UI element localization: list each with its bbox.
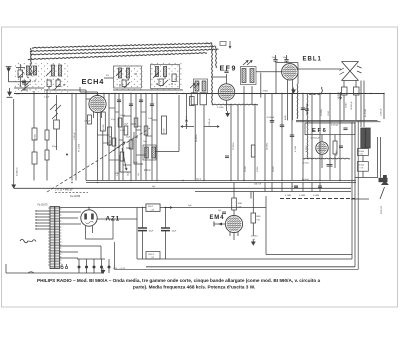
pilot lamp bus	[77, 258, 105, 260]
svg-text:1.000 µF: 1.000 µF	[381, 108, 383, 116]
caps under EBL1 shield	[305, 108, 309, 110]
tube EF9	[218, 84, 234, 100]
chassis line mid	[146, 266, 355, 268]
tube EBL1	[282, 64, 298, 80]
EBL1 box left	[275, 63, 277, 94]
mixer resistor 3	[134, 118, 138, 127]
EF9 grid wire	[226, 74, 228, 84]
mains left vert	[5, 264, 7, 273]
mains squiggle	[20, 239, 36, 243]
tuning arrow down	[122, 148, 127, 170]
osc cluster A dots	[114, 64, 143, 90]
shield row 3	[30, 49, 219, 55]
grid cap row b	[318, 185, 322, 187]
switch levers cluster1	[18, 72, 24, 78]
left wires col A	[33, 91, 35, 128]
osc cluster A frame	[114, 66, 142, 88]
elco b wires	[165, 208, 167, 229]
transformer primary leads	[36, 210, 50, 212]
EF9 cathode wire	[226, 100, 228, 111]
osc B dots	[156, 83, 157, 84]
padder caps row	[117, 99, 121, 101]
tube EM4	[225, 215, 242, 232]
EF9 top cap	[224, 70, 228, 72]
mixer link wires	[109, 107, 115, 109]
cap row right b	[290, 134, 295, 136]
det wire 2	[203, 105, 205, 181]
svg-text:468 kc: 468 kc	[144, 170, 152, 172]
AZ1 anode wires	[88, 208, 90, 210]
pick-up diagonal	[380, 187, 385, 199]
osc trimmer a	[122, 80, 126, 87]
EM4 target wires	[233, 210, 235, 215]
chassis line outer	[115, 121, 359, 269]
svg-text:51243: 51243	[328, 111, 330, 116]
speaker arrows right	[357, 66, 362, 73]
switch levers cluster2	[46, 70, 52, 76]
resistor 27k	[190, 97, 195, 106]
det wire 1	[194, 105, 196, 181]
mixer resistor 4	[144, 126, 148, 135]
EM4 wire from bus	[233, 183, 235, 199]
wire cluster2 bottom	[44, 89, 86, 91]
bus line C	[195, 191, 351, 193]
svg-text:0.1 MΩ: 0.1 MΩ	[294, 145, 297, 152]
ift2 wire down c	[254, 105, 256, 181]
right resistor 70000	[358, 162, 369, 172]
svg-text:50.000Ω: 50.000Ω	[265, 142, 268, 150]
EF6 top double line a	[296, 119, 378, 121]
svg-text:3 MΩ: 3 MΩ	[263, 90, 269, 93]
svg-text:1.000 µF: 1.000 µF	[209, 118, 211, 126]
EF6 shield wavy bottom	[303, 157, 350, 160]
L-bend wire a	[134, 132, 143, 164]
bus line B	[14, 187, 351, 189]
det resistor 1	[191, 93, 197, 105]
svg-text:PHILIPS RADIO – Mod. BI 590/A: PHILIPS RADIO – Mod. BI 590/A – Onda med…	[37, 278, 321, 283]
EM4 resistor 2M	[251, 213, 256, 223]
speaker wire down d	[363, 81, 365, 128]
svg-text:0.1MΩ: 0.1MΩ	[335, 150, 338, 156]
left resistor B	[32, 152, 37, 164]
svg-text:16.000 µF: 16.000 µF	[351, 101, 353, 110]
mains input terminals	[61, 266, 63, 268]
cluster1 junction dots	[20, 85, 21, 86]
wire input mid	[14, 87, 44, 89]
IF transformer 468kc	[145, 147, 149, 158]
svg-text:0.5MΩ: 0.5MΩ	[313, 194, 320, 197]
screen res wire	[102, 131, 104, 181]
svg-text:50.000 Ω: 50.000 Ω	[195, 134, 198, 142]
resistor 470 left	[54, 120, 60, 129]
bus line A	[86, 180, 356, 182]
EF6 wires	[321, 135, 323, 142]
svg-text:50.000: 50.000	[251, 236, 258, 238]
svg-text:30.000: 30.000	[103, 123, 105, 130]
osc A dots	[119, 84, 120, 85]
left resistor D	[45, 150, 49, 160]
osc padder cap	[172, 74, 176, 82]
EM4 pins	[229, 232, 231, 236]
svg-text:0.1MΩ: 0.1MΩ	[285, 194, 292, 197]
svg-text:25A ¼W: 25A ¼W	[254, 183, 261, 186]
svg-text:70.000: 70.000	[359, 165, 365, 167]
osc cluster B frame	[151, 65, 180, 89]
EBL1 anode wire	[297, 68, 341, 70]
EF6 shield wavy left	[306, 94, 309, 159]
svg-text:Fa 50143: Fa 50143	[365, 109, 367, 117]
choke 1300 ohm box	[146, 252, 160, 260]
speaker down arrow	[339, 92, 341, 99]
cap wires	[275, 55, 277, 60]
svg-text:1.3 MΩ: 1.3 MΩ	[217, 106, 224, 109]
bus junction dots	[33, 93, 34, 94]
cap det small	[225, 155, 229, 157]
svg-text:51243: 51243	[346, 103, 348, 108]
svg-text:4700µF: 4700µF	[331, 124, 339, 126]
svg-text:¼W: ¼W	[256, 218, 260, 221]
EF6 shield wavy top notch	[309, 93, 322, 96]
wire input top	[16, 67, 25, 69]
det arrow left	[181, 125, 194, 127]
tube ECH4	[89, 95, 106, 112]
svg-text:470: 470	[106, 75, 109, 77]
svg-text:1300 Ω: 1300 Ω	[148, 253, 155, 256]
svg-text:50.000 Ω: 50.000 Ω	[17, 167, 19, 176]
svg-text:Fa 31075: Fa 31075	[38, 204, 49, 207]
svg-text:2MΩ: 2MΩ	[256, 215, 261, 218]
antenna	[6, 67, 12, 83]
antenna coil L1	[26, 66, 29, 75]
mixer resistor 2	[124, 126, 128, 135]
resistor column mid	[162, 116, 167, 134]
osc section box bottom	[155, 151, 179, 153]
dashed heater bus	[280, 198, 355, 200]
svg-text:50µF: 50µF	[126, 137, 130, 139]
svg-text:470µF: 470µF	[52, 146, 58, 148]
EM4 grid cap small	[222, 211, 226, 213]
em4 net wire a	[250, 192, 252, 199]
osc cluster B dots	[151, 63, 182, 90]
EF6 cathode cap	[327, 164, 333, 166]
cap row right c	[301, 107, 306, 109]
pick-up double wire a	[377, 137, 379, 178]
EM4 ground	[252, 240, 256, 246]
grid cap row a	[294, 185, 298, 187]
resistor 51k vertical	[108, 127, 112, 145]
wire osc link	[104, 77, 114, 79]
svg-text:EM4: EM4	[210, 215, 225, 221]
speaker wire down a	[343, 81, 345, 88]
svg-text:Fa 21039: Fa 21039	[70, 195, 81, 198]
em4 net wire b	[265, 196, 267, 255]
ECH4 screen resistor 30k	[100, 112, 105, 131]
svg-text:32µF: 32µF	[149, 231, 155, 233]
EF9 shield bottom	[212, 103, 258, 106]
switch levers left	[50, 104, 56, 110]
mixer vertical wires	[108, 94, 110, 181]
EF6 stage box	[305, 123, 355, 135]
pick-up lead wire	[355, 177, 378, 179]
bus line A2	[86, 182, 356, 184]
transformer secondary leads bottom	[60, 245, 102, 247]
chassis line inner	[137, 258, 352, 260]
wire antenna to cluster	[9, 81, 31, 83]
ech4 left wire long	[85, 99, 87, 181]
IFT2 wire down b	[251, 86, 253, 105]
RF coil L4	[58, 65, 61, 76]
transformer secondary leads top	[60, 211, 82, 213]
svg-text:0.25 — 0.25: 0.25 — 0.25	[113, 268, 126, 270]
bus stub y199	[351, 198, 369, 200]
antenna coil L2	[33, 66, 36, 75]
tube AZ1	[81, 210, 97, 226]
EM4 res wires	[252, 192, 254, 214]
mid wire 238	[237, 105, 239, 181]
pick-up icon	[381, 175, 389, 185]
speaker cap 16000	[354, 87, 360, 95]
svg-text:0.5MΩ: 0.5MΩ	[256, 166, 259, 172]
svg-text:400 Ω: 400 Ω	[148, 205, 154, 208]
mixer resistor 1	[118, 118, 122, 127]
shield top right ornament	[220, 42, 226, 46]
PSU top bus	[60, 207, 267, 209]
svg-text:4.50µF: 4.50µF	[120, 130, 125, 132]
wire ech4 anode up	[103, 94, 105, 100]
cap 16uF	[284, 59, 288, 61]
IFT1 coils	[195, 81, 199, 91]
osc coil Lc	[155, 67, 158, 77]
svg-text:53.000: 53.000	[359, 151, 365, 153]
switch levers osc A	[116, 70, 122, 76]
ECH4 pins	[93, 112, 95, 119]
AVC wire left	[13, 99, 15, 183]
right resistor 53000	[358, 149, 369, 156]
svg-text:0.1MΩ: 0.1MΩ	[299, 194, 306, 197]
mixer resistor 5	[129, 140, 133, 149]
speaker wire down c	[360, 81, 362, 128]
band switch dots 2	[44, 63, 70, 94]
EF9 ground arrow	[226, 111, 230, 117]
det diode wire	[260, 73, 262, 98]
mid wire 231	[230, 105, 232, 181]
shield left connector	[30, 48, 33, 76]
svg-text:50.000: 50.000	[164, 129, 166, 135]
svg-text:¼ W: ¼ W	[360, 167, 364, 170]
svg-text:ECH4: ECH4	[82, 77, 105, 86]
IFT1 frame	[194, 79, 208, 94]
svg-text:20.000Ω: 20.000Ω	[337, 91, 340, 99]
svg-text:0.1 µF: 0.1 µF	[85, 121, 91, 123]
svg-text:50.000: 50.000	[273, 167, 275, 173]
left wires col B	[46, 90, 48, 130]
svg-text:20µF: 20µF	[143, 141, 147, 143]
svg-text:2 X 11 = 460 µF: 2 X 11 = 460 µF	[55, 189, 73, 192]
svg-text:EBL1: EBL1	[303, 57, 322, 63]
EF6 res wires	[334, 135, 336, 141]
svg-text:16µF: 16µF	[283, 57, 289, 59]
cap 4700	[270, 120, 275, 122]
RF trimmer b	[56, 80, 60, 87]
antenna trimmer	[18, 70, 23, 77]
resistor on det wire	[251, 145, 255, 157]
avc arrow wire	[186, 94, 188, 120]
svg-text:51.000 + 10: 51.000 + 10	[110, 136, 112, 146]
gang dashed underline	[55, 192, 88, 194]
audio coupling verticals	[264, 183, 266, 192]
speaker wire down b	[355, 81, 357, 88]
tuning gang left	[22, 80, 28, 90]
AZ1 loop wire	[86, 219, 114, 239]
shield row 4	[28, 53, 207, 60]
earth symbol	[7, 88, 13, 97]
svg-text:1 W: 1 W	[151, 209, 155, 211]
chassis right double wire a	[351, 122, 353, 259]
IFT2 wire down a	[243, 86, 245, 181]
wire main bus	[14, 93, 384, 95]
svg-text:50µ Ω: 50µ Ω	[196, 178, 202, 181]
wire fa21038	[75, 94, 77, 181]
cap 13uF	[273, 59, 277, 61]
svg-text:40.000: 40.000	[303, 163, 310, 165]
svg-text:27.000 Ω: 27.000 Ω	[232, 142, 235, 150]
EBL1 shield wavy	[296, 84, 299, 119]
ech4 bias wire	[97, 121, 99, 181]
resistor 400 ohm box	[146, 204, 160, 211]
svg-text:Fa 21038: Fa 21038	[79, 144, 81, 152]
right edge cap wire	[383, 94, 385, 120]
HT rail from AZ1	[113, 218, 137, 220]
audio box bottom line	[266, 254, 352, 256]
shield row 2	[30, 46, 216, 51]
fuse bump	[28, 272, 34, 273]
chassis mid corner	[354, 266, 356, 268]
right res wires	[362, 147, 364, 150]
shield corner drop EF9	[211, 43, 214, 104]
svg-text:4.000: 4.000	[285, 115, 287, 120]
cap 470uF	[343, 127, 347, 129]
EBL1 ground arrow	[292, 88, 296, 94]
svg-text:4.700 Ω: 4.700 Ω	[305, 145, 308, 152]
electrolytic 32uF b	[161, 228, 170, 231]
chassis right double wire b	[354, 122, 356, 267]
IFT2 frame	[241, 67, 257, 85]
tube EF6	[316, 142, 328, 154]
osc coil La	[118, 68, 121, 78]
EBL1 box top	[276, 62, 298, 64]
speaker field resistor	[342, 87, 348, 95]
svg-text:0.5µF: 0.5µF	[111, 119, 115, 121]
PSU left vert	[136, 208, 138, 260]
EF6 grid cap 2	[339, 145, 343, 147]
mixer extra resistor b	[112, 138, 116, 146]
wire left mid	[56, 129, 58, 150]
left resistor A	[32, 128, 37, 140]
EBL1 box right	[297, 63, 299, 84]
svg-text:1.100 µF: 1.100 µF	[74, 132, 76, 140]
svg-text:91.000Ω: 91.000Ω	[320, 109, 323, 116]
speaker transformer cross	[342, 62, 359, 81]
mains bottom wire	[6, 272, 103, 274]
det arrow right	[204, 125, 219, 127]
EF6 top double line b	[296, 121, 381, 123]
mixer extra resistor a	[120, 152, 124, 161]
svg-text:1MΩ: 1MΩ	[238, 202, 243, 205]
speaker arrows left	[340, 68, 345, 75]
wire osc bottom	[113, 89, 183, 91]
gang dashed diagonal	[47, 128, 150, 192]
svg-text:13µF: 13µF	[272, 57, 278, 59]
ECH4 cathode resistor	[88, 115, 92, 124]
EF6 anode resistor	[333, 141, 337, 154]
svg-text:¼W: ¼W	[238, 205, 242, 208]
svg-text:parte). Media frequenza 468 kc: parte). Media frequenza 468 kc/s. Potenz…	[133, 285, 255, 290]
bus arrow	[164, 206, 172, 208]
osc trimmer b	[159, 79, 163, 86]
IFT2 tuning arrows	[243, 61, 248, 66]
IFT2 wire to EBL1	[256, 71, 283, 73]
resistor 1M above EM4	[232, 198, 237, 210]
output transformer coils	[361, 128, 366, 148]
power transformer core	[50, 207, 60, 269]
volume pot arrow	[111, 142, 125, 152]
shield ornament arrow	[229, 41, 231, 48]
ECH4 grid cap	[97, 94, 99, 96]
cap row right a	[280, 124, 285, 126]
svg-text:100µF: 100µF	[137, 126, 142, 128]
elco a wires	[142, 208, 144, 229]
L-bend wire b	[120, 155, 131, 172]
transformer winding ticks	[48, 207, 50, 209]
shield corner drop 2	[215, 46, 218, 68]
det resistor 2	[200, 93, 206, 105]
svg-text:4.700µF: 4.700µF	[267, 117, 275, 119]
svg-text:32µF: 32µF	[172, 231, 178, 233]
left resistor C	[45, 130, 49, 140]
pick-up double wire b	[380, 137, 382, 178]
AZ1 electrodes	[84, 214, 87, 220]
svg-text:5.000: 5.000	[148, 118, 152, 120]
osc section box right edge	[178, 95, 180, 152]
RF coil L3	[51, 65, 54, 76]
terminal row circles	[78, 266, 81, 269]
input series cap	[22, 80, 26, 82]
antenna section dots	[15, 63, 42, 92]
osc coil Lb	[126, 68, 129, 78]
bus dots	[71, 182, 72, 183]
svg-text:PICK-UP: PICK-UP	[381, 205, 383, 214]
ground arrow avc	[12, 183, 16, 189]
RF trimmer a	[47, 80, 51, 87]
osc coil Ld	[163, 67, 166, 77]
dash junction blob	[66, 154, 68, 156]
PSU bus dots	[88, 207, 89, 208]
svg-text:25.000: 25.000	[245, 167, 247, 173]
IFT2 coils	[242, 69, 246, 83]
shield row 1	[32, 43, 212, 48]
svg-text:50.000: 50.000	[35, 134, 37, 140]
switch levers osc B	[153, 72, 159, 78]
audio vertical wires	[264, 94, 266, 181]
bottom ground symbol	[101, 268, 105, 274]
EBL1 pin wires	[287, 80, 289, 121]
IFT1 tuning arrows	[190, 84, 195, 89]
AZ1 output wire	[97, 218, 113, 220]
electrolytic 32uF a	[138, 228, 147, 231]
cluster2 junction dots	[48, 87, 49, 88]
cap 1100uF wire	[71, 94, 73, 181]
